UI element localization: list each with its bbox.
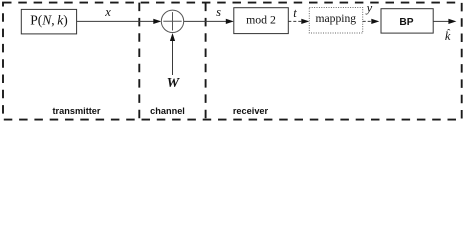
svg-text:BP: BP [399,17,413,28]
svg-text:receiver: receiver [233,106,269,116]
svg-text:t: t [293,6,297,20]
svg-text:x: x [104,5,111,19]
mapping block (dotted) [309,8,362,34]
adder U1 (circle with plus) [161,10,183,32]
svg-text:transmitter: transmitter [53,106,101,116]
wire W: noise input into adder [172,41,174,75]
transmitter/channel dashed divider [138,3,140,120]
svg-text:mapping: mapping [316,12,357,25]
svg-text:channel: channel [150,106,185,116]
wire y: mapping to BP (dashed) [363,20,373,22]
svg-text:P(N, k): P(N, k) [30,12,68,27]
wire t: mod 2 to mapping (dashed) [288,20,302,22]
wire k-hat: BP output [433,20,449,22]
channel/receiver dashed divider [205,3,207,120]
svg-text:y: y [365,1,373,15]
encoder block P(N,k) [21,9,76,34]
demodulator block mod 2 [234,8,288,34]
svg-text:mod 2: mod 2 [246,13,276,27]
outer dashed frame [3,3,462,120]
svg-text:W: W [167,76,181,91]
decoder block BP [381,9,433,33]
wire x: P(N,k) to adder [77,20,154,22]
svg-text:s: s [216,5,221,19]
wire s: adder to mod 2 [184,20,226,22]
